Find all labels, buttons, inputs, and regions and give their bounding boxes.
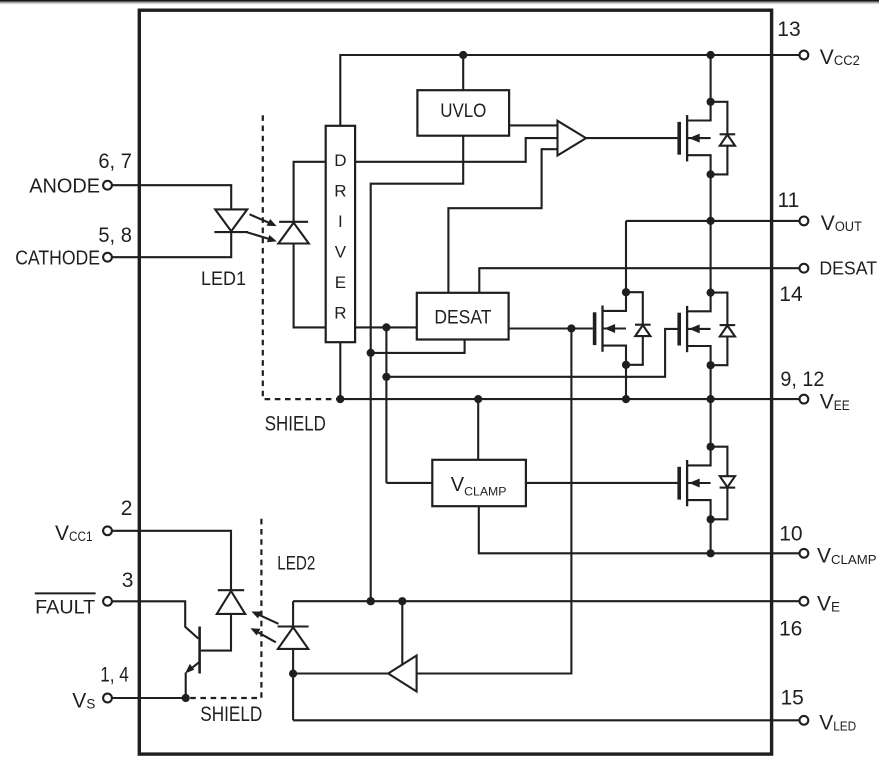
pin CATHODE terminal bbox=[103, 253, 112, 262]
transistor Q2 source stub bbox=[603, 346, 627, 365]
wire LED1 cathode to CATHODE bbox=[112, 232, 231, 257]
wire VE to LED2 anode... cathode bbox=[292, 601, 294, 626]
svg-text:R: R bbox=[334, 182, 346, 201]
wire VLED net bbox=[293, 719, 799, 721]
transistor Q2 body diode branch bbox=[626, 292, 643, 365]
LED2 feedback LED bbox=[278, 625, 309, 627]
LED2 light arrow lower bbox=[254, 630, 276, 642]
wire ANODE to LED1 anode bbox=[112, 185, 231, 209]
DRIVER block bbox=[326, 126, 355, 342]
transistor Q4 drain node bbox=[707, 443, 715, 451]
svg-text:16: 16 bbox=[779, 618, 802, 641]
wire DRIVER bottom to VEE rail bbox=[339, 342, 341, 399]
transistor Q1 body diode symbol bbox=[720, 133, 736, 135]
wire Q4 source to VCLAMP net bbox=[710, 519, 712, 553]
wire LED2 to VLED net bbox=[292, 649, 294, 720]
transistor Q2 channel bbox=[601, 306, 603, 352]
svg-text:D: D bbox=[334, 151, 346, 170]
feedback buffer A2 bbox=[388, 656, 416, 692]
transistor Q3 gate bar bbox=[677, 313, 681, 346]
svg-text:LED2: LED2 bbox=[277, 554, 315, 575]
svg-text:3: 3 bbox=[122, 569, 134, 592]
transistor Q4 gate bar bbox=[677, 467, 681, 500]
transistor Q1 body stub with arrow bbox=[687, 137, 711, 139]
wire FAULT to Q5 collector bbox=[112, 601, 198, 638]
LED1 light arrow upper bbox=[250, 214, 274, 224]
wire Q3 gate feed bbox=[386, 329, 677, 377]
svg-text:11: 11 bbox=[778, 189, 800, 212]
wire VOUT net bbox=[626, 220, 799, 222]
junction VCLAMP/Q4 source bbox=[707, 549, 715, 557]
wire DESAT sense net bbox=[479, 268, 799, 293]
pin DESAT terminal bbox=[800, 264, 809, 273]
LED1 light arrow lower bbox=[247, 232, 274, 240]
wire A2 output to LED2 bbox=[293, 672, 388, 674]
transistor Q3 channel bbox=[686, 306, 688, 352]
wire UVLO output to buffer A1 bbox=[509, 124, 557, 126]
transistor Q1 source node bbox=[707, 170, 715, 178]
buffer amplifier A1 bbox=[558, 121, 587, 156]
junction LED2/A2 output bbox=[289, 670, 297, 678]
junction VE/UVLO rail bbox=[367, 597, 375, 605]
wire VCLAMP net bbox=[479, 506, 800, 553]
svg-text:9, 12: 9, 12 bbox=[780, 368, 824, 391]
wire VEE to VCLAMP block bbox=[477, 399, 479, 460]
svg-text:SHIELD: SHIELD bbox=[265, 413, 326, 436]
wire DESAT bottom to UVLO rail bbox=[371, 340, 465, 353]
junction Q2 gate / A2 column bbox=[567, 324, 575, 332]
svg-text:DESAT: DESAT bbox=[434, 308, 491, 329]
fault transistor Q5 emitter bbox=[189, 662, 200, 671]
junction VCC2/UVLO bbox=[459, 51, 467, 59]
transistor Q2 body diode symbol bbox=[635, 324, 651, 326]
wire Q1 source to Q3 drain bbox=[710, 174, 712, 292]
svg-text:14: 14 bbox=[779, 283, 803, 306]
junction Q3 gate feed bbox=[382, 373, 390, 381]
photodiode D2 (fault) bbox=[218, 589, 244, 591]
svg-text:DESAT: DESAT bbox=[819, 259, 877, 279]
pin VLED terminal bbox=[800, 716, 809, 725]
wire VCLAMP block left input bbox=[386, 482, 432, 484]
pin VCC2 terminal bbox=[800, 51, 809, 60]
transistor Q2 drain stub bbox=[603, 292, 627, 311]
pin ANODE terminal bbox=[103, 181, 112, 190]
pin VEE terminal bbox=[800, 395, 809, 404]
transistor Q4 source stub bbox=[687, 500, 711, 519]
transistor Q4 source node bbox=[707, 515, 715, 523]
wire DRIVER output to buffer A1 bbox=[355, 138, 557, 162]
wire UVLO bottom rail to VE bbox=[371, 136, 464, 602]
transistor Q1 source stub bbox=[687, 155, 711, 174]
transistor Q3 body diode branch bbox=[711, 293, 728, 366]
wire D2 anode to Q5 base bbox=[201, 614, 231, 651]
svg-text:FAULT: FAULT bbox=[35, 596, 95, 618]
svg-text:15: 15 bbox=[781, 687, 804, 710]
transistor Q2 source node bbox=[622, 361, 630, 369]
transistor Q3 source stub bbox=[687, 346, 711, 365]
transistor Q3 body diode symbol bbox=[720, 324, 736, 326]
junction VEE/Q3-Q4 column bbox=[707, 395, 715, 403]
svg-text:SHIELD: SHIELD bbox=[200, 703, 262, 726]
wire VCC1 to photodiode D2 bbox=[112, 531, 231, 590]
junction VOUT / output column bbox=[707, 217, 715, 225]
fault shield (dashed) bbox=[190, 519, 261, 698]
svg-text:I: I bbox=[338, 212, 343, 231]
pin VCLAMP terminal bbox=[800, 549, 809, 558]
pin VOUT terminal bbox=[800, 217, 809, 226]
wire VE feed to A2 bbox=[401, 601, 403, 664]
svg-text:5, 8: 5, 8 bbox=[98, 224, 131, 247]
DESAT block bbox=[417, 293, 509, 340]
transistor Q4 drain stub bbox=[687, 447, 711, 466]
svg-text:13: 13 bbox=[777, 18, 800, 41]
transistor Q3 drain stub bbox=[687, 293, 711, 312]
LED1 input LED bbox=[214, 231, 248, 233]
transistor Q1 drain node bbox=[707, 98, 715, 106]
wire VOUT elbow to Q2 drain bbox=[625, 221, 627, 292]
svg-text:UVLO: UVLO bbox=[440, 101, 486, 122]
svg-text:10: 10 bbox=[779, 523, 802, 546]
wire Q1 drain to VCC2 rail bbox=[710, 55, 712, 102]
transistor Q4 body diode symbol (clamp orientation) bbox=[720, 476, 735, 487]
svg-text:CATHODE: CATHODE bbox=[15, 247, 100, 269]
junction VEE/VCLAMP feed bbox=[474, 395, 482, 403]
transistor Q3 body stub with arrow bbox=[687, 328, 711, 330]
wire Q4 drain to VEE bbox=[710, 399, 712, 447]
transistor Q1 drain stub bbox=[687, 102, 711, 121]
pin VCC1 terminal bbox=[103, 526, 112, 535]
wire DRIVER top to VCC2 rail bbox=[340, 55, 799, 126]
svg-text:E: E bbox=[335, 273, 346, 292]
photodiode D1 anode wire to DRIVER bbox=[294, 244, 326, 328]
junction VS/Q5 emitter/shield bbox=[182, 694, 190, 702]
wire Q3 source to VEE bbox=[710, 365, 712, 399]
transistor Q2 drain node bbox=[622, 288, 630, 296]
wire DRIVER to DESAT block bbox=[355, 326, 417, 328]
wire DESAT output to Q2 gate bbox=[509, 327, 593, 329]
fault transistor Q5 base bar bbox=[198, 627, 201, 674]
transistor Q1 gate bar bbox=[677, 122, 681, 155]
svg-text:LED1: LED1 bbox=[201, 269, 246, 290]
wire Q5 emitter to VS bbox=[185, 673, 187, 699]
transistor Q4 body stub with arrow bbox=[687, 482, 711, 484]
svg-text:6, 7: 6, 7 bbox=[98, 150, 131, 173]
photodiode D1 cathode wire to DRIVER bbox=[294, 162, 326, 222]
transistor Q1 body diode branch bbox=[711, 102, 728, 175]
wire A1 output to Q1 gate bbox=[586, 137, 678, 139]
pin FAULT terminal bbox=[103, 597, 112, 606]
UVLO block bbox=[417, 90, 509, 136]
IC package boundary bbox=[139, 10, 771, 754]
wire DESAT top to buffer A1 input bbox=[448, 149, 557, 293]
pin VE terminal bbox=[800, 597, 809, 606]
pin VS terminal bbox=[103, 694, 112, 703]
LED2 light arrow upper bbox=[255, 613, 279, 624]
wire A2 input from Q2 gate node bbox=[417, 329, 572, 674]
junction VCC2/Q1 drain bbox=[707, 51, 715, 59]
wire VE net bbox=[293, 600, 799, 602]
transistor Q3 source node bbox=[707, 361, 715, 369]
wire VS net bbox=[112, 697, 186, 699]
svg-text:V: V bbox=[335, 243, 347, 262]
transistor Q1 channel bbox=[686, 115, 688, 161]
photodiode D1 bbox=[279, 221, 308, 223]
junction VE/A2 feed bbox=[398, 597, 406, 605]
input shield (dashed) bbox=[263, 115, 338, 399]
junction UVLO rail / VE line bbox=[367, 597, 375, 605]
wire VEE net bbox=[340, 398, 799, 400]
transistor Q3 drain node bbox=[707, 289, 715, 297]
svg-text:2: 2 bbox=[121, 497, 133, 520]
junction VEE/Q2 source bbox=[622, 395, 630, 403]
junction UVLO rail / DESAT bottom bbox=[367, 349, 375, 357]
wire VCLAMP output to Q4 gate bbox=[526, 482, 678, 484]
transistor Q2 gate bar bbox=[593, 312, 597, 345]
transistor Q4 body diode branch bbox=[711, 447, 728, 520]
wire UVLO supply feed bbox=[462, 55, 464, 90]
junction VEE/shield/DRIVER bbox=[336, 395, 344, 403]
svg-text:1, 4: 1, 4 bbox=[100, 663, 129, 686]
junction DRIVER/DESAT line bbox=[382, 323, 390, 331]
svg-text:R: R bbox=[334, 304, 346, 323]
transistor Q2 body stub with arrow bbox=[603, 327, 627, 329]
transistor Q4 channel bbox=[686, 460, 688, 506]
svg-text:ANODE: ANODE bbox=[29, 175, 100, 197]
wire junction down to VCLAMP input bbox=[385, 327, 387, 483]
wire Q2 source to VEE bbox=[625, 365, 627, 399]
VCLAMP block bbox=[432, 460, 526, 506]
